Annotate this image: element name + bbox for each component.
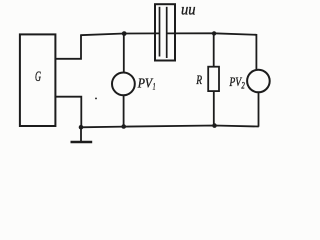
wire R bottom lead [213, 91, 215, 126]
svg-text:G: G [35, 69, 41, 85]
svg-text:R: R [196, 72, 203, 87]
wire PV2 top lead [255, 34, 257, 71]
tube UU left electrode [159, 7, 161, 57]
voltmeter PV2 [247, 70, 270, 93]
wire upper stub from G [55, 35, 81, 59]
node junction bottom under PV1 [121, 124, 126, 129]
svg-text:1: 1 [153, 81, 156, 91]
svg-text:ии: ии [181, 2, 196, 19]
wire R top lead [213, 33, 215, 67]
node junction bottom at ground [79, 125, 84, 130]
voltmeter PV1 [112, 73, 135, 96]
wire PV1 bottom lead [123, 95, 125, 127]
wire PV1 top lead [123, 34, 125, 74]
ground [71, 127, 93, 142]
wire top left segment [80, 33, 159, 35]
generator G box [20, 34, 56, 126]
node junction bottom under R [212, 123, 217, 128]
resistor R [208, 67, 219, 91]
tube UU right electrode [166, 7, 168, 58]
svg-text:2: 2 [241, 81, 245, 91]
node junction top above R [212, 31, 216, 35]
wire top right segment [167, 33, 257, 35]
wire bottom rail [80, 126, 259, 128]
svg-text:PV: PV [137, 75, 154, 90]
tube UU envelope [155, 4, 175, 60]
speck artifact [95, 97, 97, 99]
node junction top above PV1 [122, 31, 127, 36]
wire lower stub from G [55, 97, 82, 128]
wire PV2 bottom lead [258, 92, 260, 127]
